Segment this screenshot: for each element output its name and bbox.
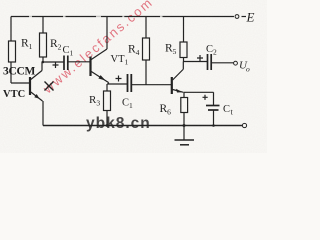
wire: collector node to C2 — [183, 61, 207, 63]
VT2 emitter arrow — [176, 89, 183, 93]
capacitor C1 (second, coupling to VT2) — [116, 74, 132, 92]
wire: C2 to output terminal — [212, 62, 234, 64]
terminal bottom right — [242, 123, 246, 127]
capacitor C2 — [197, 54, 211, 70]
wire: C1 to VT2 base — [132, 84, 171, 86]
ground — [175, 126, 195, 145]
resistor R6 — [181, 98, 188, 126]
resistor R2 — [40, 17, 47, 63]
terminal Uo — [234, 61, 238, 65]
resistor R3 — [104, 91, 111, 126]
VT1 emitter arrow — [98, 75, 105, 80]
terminal -E — [235, 15, 246, 19]
transistor VT1 — [91, 49, 109, 83]
wire: VT2 collector up to node — [182, 62, 184, 70]
wire: top supply rail — [11, 16, 234, 18]
wire: VT1 collector to rail — [106, 17, 108, 50]
capacitor C1 (coupling, first stage) — [53, 56, 68, 71]
wire: VT1 emitter node — [107, 83, 127, 92]
wire: VT2 emitter node to R6 and C3 — [184, 92, 214, 105]
wire: node to C1 — [43, 61, 64, 63]
wire: bottom rail — [43, 125, 242, 127]
node: R6 bottom on rail — [183, 124, 186, 127]
node: R3 bottom on rail — [106, 124, 109, 127]
wire: left border down to VTC base — [11, 17, 30, 84]
resistor R1 — [9, 41, 16, 62]
X mark on VTC — [45, 82, 54, 91]
wire: C1 to VT1 base — [68, 61, 90, 63]
transistor VT2 — [172, 70, 184, 95]
rail scan gaps — [29, 16, 163, 18]
watermark www.elecfans.com — [39, 0, 156, 97]
VTC emitter arrow — [34, 94, 39, 99]
paper noise — [0, 0, 1, 1]
resistor R4 — [143, 17, 150, 85]
wire: VTC collector up to node — [41, 62, 43, 71]
resistor R5 — [180, 17, 187, 62]
capacitor C3 — [203, 95, 220, 126]
wire: VTC emitter down to bottom rail — [42, 101, 44, 126]
transistor VTC — [30, 71, 43, 102]
node: C3 bottom on rail — [212, 124, 215, 127]
node: R2/VTC/C1 junction — [42, 61, 45, 64]
